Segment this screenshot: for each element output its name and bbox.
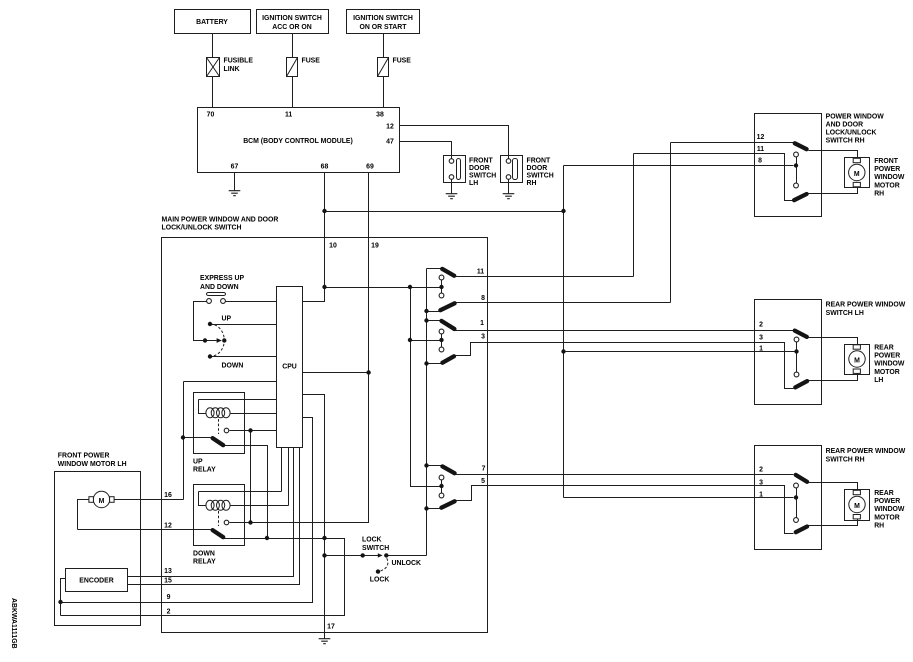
svg-text:LOCK: LOCK [362, 536, 382, 543]
svg-text:POWER: POWER [874, 498, 900, 505]
svg-text:11: 11 [285, 112, 292, 119]
svg-text:LOCK: LOCK [370, 577, 390, 584]
svg-text:SWITCH RH: SWITCH RH [826, 456, 865, 463]
svg-text:67: 67 [231, 163, 239, 170]
svg-text:REAR: REAR [874, 490, 894, 497]
svg-text:69: 69 [366, 163, 374, 170]
svg-text:FRONT: FRONT [527, 157, 552, 164]
svg-text:8: 8 [481, 295, 485, 302]
svg-text:LOCK/UNLOCK SWITCH: LOCK/UNLOCK SWITCH [162, 225, 242, 232]
svg-text:2: 2 [759, 467, 763, 474]
svg-text:47: 47 [386, 139, 394, 146]
svg-text:12: 12 [164, 523, 172, 530]
svg-text:M: M [854, 171, 860, 178]
svg-text:15: 15 [164, 577, 172, 584]
svg-text:WINDOW: WINDOW [874, 361, 905, 368]
svg-text:RH: RH [874, 190, 884, 197]
svg-text:FUSIBLE: FUSIBLE [224, 57, 254, 64]
svg-text:DOWN: DOWN [193, 551, 215, 558]
svg-text:REAR POWER WINDOW: REAR POWER WINDOW [826, 448, 906, 455]
svg-text:UP: UP [222, 316, 232, 323]
svg-text:FUSE: FUSE [302, 57, 321, 64]
svg-text:12: 12 [386, 124, 394, 131]
svg-text:POWER: POWER [874, 353, 900, 360]
svg-text:7: 7 [482, 466, 486, 473]
svg-text:70: 70 [207, 112, 215, 119]
svg-text:SWITCH: SWITCH [362, 545, 389, 552]
svg-text:FRONT: FRONT [469, 157, 494, 164]
svg-text:SWITCH RH: SWITCH RH [826, 138, 865, 145]
svg-text:38: 38 [376, 112, 384, 119]
svg-text:MOTOR: MOTOR [874, 369, 900, 376]
svg-text:9: 9 [167, 594, 171, 601]
svg-text:LINK: LINK [224, 66, 240, 73]
svg-text:3: 3 [481, 334, 485, 341]
svg-text:FUSE: FUSE [393, 57, 412, 64]
svg-text:SWITCH: SWITCH [527, 172, 554, 179]
svg-text:WINDOW MOTOR LH: WINDOW MOTOR LH [58, 461, 127, 468]
svg-text:POWER WINDOW: POWER WINDOW [826, 113, 885, 120]
svg-text:2: 2 [759, 322, 763, 329]
svg-text:DOOR: DOOR [469, 165, 490, 172]
svg-text:ACC OR ON: ACC OR ON [272, 24, 311, 31]
svg-text:11: 11 [757, 146, 764, 153]
svg-text:POWER: POWER [874, 166, 900, 173]
svg-text:AND DOOR: AND DOOR [826, 122, 864, 129]
svg-text:12: 12 [757, 134, 765, 141]
svg-text:2: 2 [167, 609, 171, 616]
svg-text:13: 13 [164, 568, 172, 575]
svg-text:UNLOCK: UNLOCK [392, 560, 421, 567]
svg-text:RH: RH [874, 522, 884, 529]
svg-text:MAIN POWER WINDOW AND DOOR: MAIN POWER WINDOW AND DOOR [162, 216, 279, 223]
svg-text:5: 5 [481, 478, 485, 485]
svg-text:BATTERY: BATTERY [196, 19, 228, 26]
svg-text:ABKWA1111GB: ABKWA1111GB [10, 598, 17, 649]
svg-text:M: M [854, 357, 860, 364]
svg-text:IGNITION SWITCH: IGNITION SWITCH [353, 15, 413, 22]
svg-text:19: 19 [371, 243, 379, 250]
svg-text:FRONT: FRONT [874, 158, 899, 165]
svg-text:DOOR: DOOR [527, 165, 548, 172]
svg-text:IGNITION SWITCH: IGNITION SWITCH [262, 15, 322, 22]
svg-text:CPU: CPU [282, 364, 297, 371]
svg-text:AND DOWN: AND DOWN [200, 284, 239, 291]
svg-text:UP: UP [193, 459, 203, 466]
svg-text:WINDOW: WINDOW [874, 174, 905, 181]
svg-text:FRONT POWER: FRONT POWER [58, 453, 110, 460]
svg-text:REAR: REAR [874, 345, 894, 352]
svg-text:1: 1 [759, 346, 763, 353]
svg-text:M: M [99, 498, 105, 505]
svg-text:DOWN: DOWN [222, 363, 244, 370]
svg-text:MOTOR: MOTOR [874, 514, 900, 521]
svg-text:1: 1 [759, 492, 763, 499]
svg-text:SWITCH: SWITCH [469, 172, 496, 179]
svg-text:MOTOR: MOTOR [874, 182, 900, 189]
svg-text:68: 68 [321, 163, 329, 170]
svg-text:LH: LH [469, 180, 478, 187]
svg-text:16: 16 [164, 492, 172, 499]
svg-text:REAR POWER WINDOW: REAR POWER WINDOW [826, 302, 906, 309]
svg-text:17: 17 [327, 624, 335, 631]
svg-text:WINDOW: WINDOW [874, 506, 905, 513]
svg-text:8: 8 [758, 158, 762, 165]
svg-text:RH: RH [527, 180, 537, 187]
svg-text:3: 3 [759, 480, 763, 487]
svg-text:LOCK/UNLOCK: LOCK/UNLOCK [826, 130, 877, 137]
svg-text:BCM (BODY CONTROL MODULE): BCM (BODY CONTROL MODULE) [243, 138, 353, 145]
svg-text:10: 10 [329, 243, 337, 250]
svg-text:ON OR START: ON OR START [360, 24, 408, 31]
svg-text:11: 11 [477, 269, 484, 276]
svg-text:RELAY: RELAY [193, 467, 216, 474]
svg-text:EXPRESS UP: EXPRESS UP [200, 275, 244, 282]
svg-text:RELAY: RELAY [193, 559, 216, 566]
svg-text:LH: LH [874, 377, 883, 384]
svg-text:ENCODER: ENCODER [79, 578, 113, 585]
svg-text:3: 3 [759, 335, 763, 342]
svg-text:1: 1 [480, 320, 484, 327]
svg-text:SWITCH LH: SWITCH LH [826, 310, 864, 317]
svg-text:M: M [854, 503, 860, 510]
